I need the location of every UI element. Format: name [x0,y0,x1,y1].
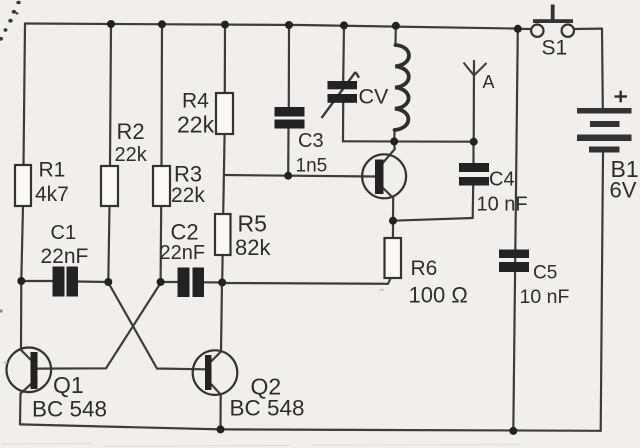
svg-text:R3: R3 [174,162,202,187]
svg-text:R5: R5 [238,211,267,237]
wire C4 bottom lead [472,186,475,219]
node C1 right [104,278,112,286]
svg-text:10 nF: 10 nF [477,194,528,216]
wire C2 right lead [204,281,222,283]
capacitor C2 [178,268,205,298]
node C2 left [157,278,165,286]
wire CV top lead [342,25,345,81]
svg-text:C4: C4 [489,169,515,191]
wire bottom rail [20,424,601,430]
svg-text:R4: R4 [182,90,209,113]
svg-text:82k: 82k [235,235,271,260]
battery plus sign [615,91,628,103]
wire R3 bottom to C2 node [160,206,163,282]
antenna A [464,63,487,76]
wire R2 top lead [110,24,111,166]
wire Q3 collector [383,142,395,163]
variable capacitor CV [322,72,360,118]
capacitor C3 [275,107,305,129]
wire C1 left lead [21,280,52,282]
svg-text:R1: R1 [39,159,66,182]
resistor R4 [216,93,233,134]
svg-text:6V: 6V [610,178,637,203]
wire C2 node to R6 bottom [222,279,390,284]
resistor R6 [385,238,402,278]
node tank coil bottom [390,137,398,145]
wire C4 top lead [472,142,474,163]
wire battery bottom / right rail [601,153,603,431]
node C1 left [17,277,25,285]
svg-text:C5: C5 [533,263,557,284]
wire R5 bottom to C2/R5 node [221,255,224,283]
transistor Q3 (oscillator) [362,154,406,198]
svg-text:C2: C2 [171,220,199,245]
wire Q2 emitter drop [212,385,221,430]
switch S1 [531,5,574,37]
capacitor C1 [53,267,79,297]
svg-text:CV: CV [359,85,390,109]
resistor R2 [101,166,118,206]
node Q3 emitter / R6 [389,217,397,225]
wire C1 node to Q1 collector [20,281,22,350]
transistor Q1 [7,348,52,393]
svg-text:22k: 22k [177,112,215,138]
wire C2 left lead [161,281,178,283]
node top rail CV [340,21,348,29]
wire left rail upper (to R1) [24,24,26,166]
svg-text:BC 548: BC 548 [32,397,107,422]
svg-text:BC 548: BC 548 [230,396,305,421]
wire S1 right lead to battery corner [574,28,602,31]
svg-text:R2: R2 [117,119,145,144]
node top rail C3 [285,21,293,29]
svg-text:22nF: 22nF [41,245,89,268]
svg-text:22nF: 22nF [160,242,206,264]
node top rail S1/C5 [514,25,522,33]
node antenna / C4 [470,138,478,146]
capacitor C4 [459,163,489,186]
wire cross coupling C1 node to Q2 base [109,283,206,369]
svg-text:10 nF: 10 nF [520,286,570,308]
resistor R3 [153,166,170,206]
node C2 right / R5 / Q2 collector [218,279,226,287]
svg-text:4k7: 4k7 [35,183,69,206]
wire R1 bottom to C1 node [21,206,23,281]
wire coil bottom lead [393,130,396,141]
inductor L1 (tank coil) [395,45,409,130]
wire S1 left lead [518,28,531,30]
wire Q3 emitter to C4 bottom [393,218,473,221]
wire battery top lead [601,29,604,108]
wire base of oscillator (R4/R5 tee to Q3 base) [225,175,375,177]
transistor Q2 [193,350,238,395]
wire tank bus (CV - coil - antenna) [343,140,474,143]
svg-text:22k: 22k [171,184,205,207]
svg-text:R6: R6 [411,257,438,280]
svg-text:22k: 22k [115,144,148,166]
wire R6 top lead [392,221,394,238]
wire S1 to C5 rail [513,29,518,431]
battery B1 [577,108,632,153]
wire R4 top lead [224,25,226,93]
resistor R1 [15,165,31,206]
svg-text:Q1: Q1 [53,372,84,398]
svg-text:1n5: 1n5 [296,156,328,177]
node bottom rail C5 [509,427,517,435]
node bottom rail Q2 emitter [217,425,225,433]
wire C3 top lead [288,25,290,107]
wire Q3 emitter drop [383,188,393,221]
wire Q2 collector riser [212,283,223,361]
capacitor C5 [499,250,529,273]
node top rail coil [392,22,400,30]
node top rail R3 [158,20,166,28]
wire Q1 collector entry [21,350,31,360]
resistor R5 [215,214,231,255]
wire antenna mast [473,61,475,142]
wire CV bottom lead to tank bus [342,103,344,142]
wire C3 bottom lead [287,129,289,176]
svg-text:S1: S1 [542,37,568,60]
svg-text:100 Ω: 100 Ω [409,283,468,308]
wire R3 top lead [160,24,163,166]
wire R2 bottom to C1 node [108,206,109,282]
node top rail R4 [221,21,229,29]
svg-text:A: A [483,72,495,92]
wire cross coupling C2 node to Q1 base [38,283,161,369]
wire C1 right lead [78,280,108,283]
svg-text:C1: C1 [51,222,77,244]
node C3 / base wire [284,172,292,180]
node top rail R2 [107,20,115,28]
wire Q1 emitter drop [20,384,31,424]
svg-text:C3: C3 [298,130,324,152]
wire coil top lead [394,26,396,45]
wire R4 bottom to R5 top [223,134,224,214]
wire top rail [25,24,518,29]
